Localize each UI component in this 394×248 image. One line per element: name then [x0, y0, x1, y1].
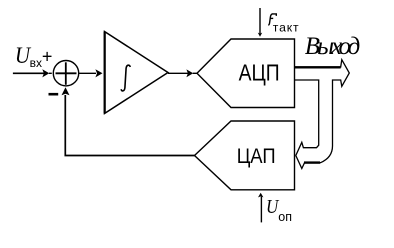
svg-text:такт: такт [273, 21, 299, 35]
svg-text:ЦАП: ЦАП [237, 145, 276, 169]
svg-text:вх: вх [30, 56, 42, 70]
svg-text:+: + [42, 46, 53, 66]
svg-text:оп: оп [278, 210, 292, 224]
svg-text:Выход: Выход [305, 33, 361, 60]
svg-text:АЦП: АЦП [239, 61, 280, 86]
